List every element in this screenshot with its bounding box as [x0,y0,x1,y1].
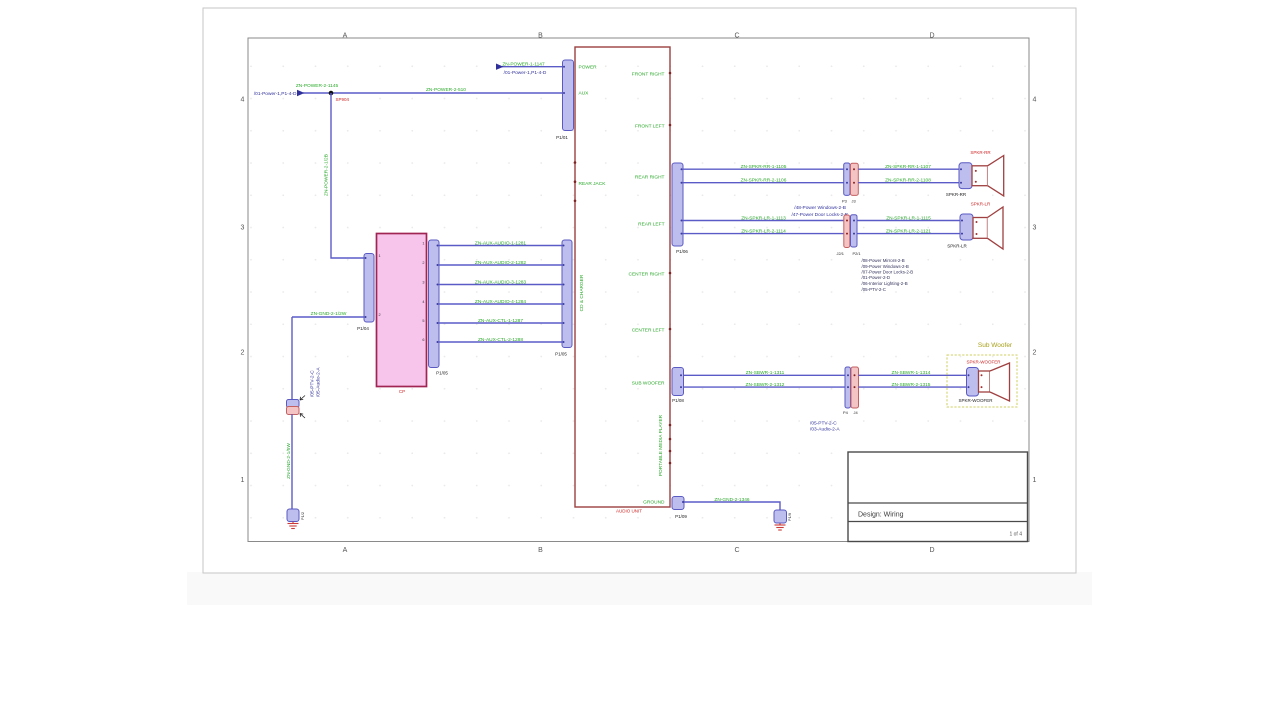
inline pair arrow bottom M [300,414,305,419]
svg-text:3: 3 [1033,225,1037,232]
connector P1/06 [672,163,683,246]
wire ZN-AUX-AUDIO-4 [439,303,562,305]
sub woofer dashed enclosure [947,355,1017,407]
svg-text:C: C [734,33,739,40]
svg-text:ZN-SPKR-RR-2-1106: ZN-SPKR-RR-2-1106 [741,178,787,184]
svg-text:/06-Interior Lighting-2-B: /06-Interior Lighting-2-B [862,281,908,286]
svg-text:ZN-SBWR-1-1314: ZN-SBWR-1-1314 [892,370,931,376]
connector SPKR-RR plug [959,163,972,189]
grid dots [249,39,1028,541]
svg-text:P3: P3 [842,199,847,204]
svg-text:P1/08: P1/08 [672,398,684,403]
svg-text:/05-PTV-2-C: /05-PTV-2-C [310,370,316,397]
svg-text:ZN-SPKR-RR-2-1108: ZN-SPKR-RR-2-1108 [885,178,931,184]
svg-text:P1/06: P1/06 [676,249,688,254]
mid connector P4 blue [845,367,851,408]
connector P1/05 right [562,240,572,348]
svg-text:/05-Audio-2-A: /05-Audio-2-A [316,367,322,397]
connector P1/01 [563,60,574,131]
speaker SPKR-WOOFER symbol [979,363,1010,401]
svg-text:ZN-SPKR-LR-1-1113: ZN-SPKR-LR-1-1113 [741,215,786,221]
connector SPKR-WOOFER plug [967,368,979,397]
inline connector pair M1 blue half [287,400,300,408]
wire ZN-AUX-AUDIO-3 [439,284,562,286]
svg-text:/48-Power Windows-2-B: /48-Power Windows-2-B [794,205,846,211]
svg-text:CD & CHARGER: CD & CHARGER [579,274,585,311]
speaker SPKR-RR symbol [972,156,1004,196]
svg-text:ZN-AUX-AUDIO-3-1283: ZN-AUX-AUDIO-3-1283 [475,279,527,285]
svg-text:REAR RIGHT: REAR RIGHT [635,175,665,181]
svg-text:ZN-AUX-AUDIO-4-1284: ZN-AUX-AUDIO-4-1284 [475,299,527,305]
svg-text:P1/9: P1/9 [787,513,792,521]
svg-text:ZN-SPKR-LR-2-1121: ZN-SPKR-LR-2-1121 [886,228,931,234]
svg-text:SPKR-LR: SPKR-LR [947,244,967,249]
svg-text:P1/04: P1/04 [357,326,369,331]
svg-text:/08-Power Mirrors-2-B: /08-Power Mirrors-2-B [862,258,905,263]
svg-text:/07-Power Door Locks-2-B: /07-Power Door Locks-2-B [862,270,914,275]
svg-text:2: 2 [379,313,381,317]
hierarchical arrow ZN-POWER-1 [496,64,504,70]
svg-text:ZN-SPKR-RR-1-1105: ZN-SPKR-RR-1-1105 [741,164,787,170]
audio unit rear jack pin dots left edge [574,161,577,202]
title block [848,452,1028,542]
connector SPKR-LR plug [960,214,973,240]
wire net ZN-POWER-2 vertical to P1/04 [331,93,364,258]
wire net ZN-POWER-2 horizontal [303,92,563,94]
canvas background band below page [187,572,1092,605]
svg-text:B: B [538,547,543,554]
svg-text:PORTABLE MEDIA PLAYER: PORTABLE MEDIA PLAYER [658,414,664,476]
connector P1/09 ground right [672,497,684,510]
svg-text:P4: P4 [843,410,849,415]
svg-text:/03-Audio-2-A: /03-Audio-2-A [810,427,840,433]
svg-text:/05-PTV-2-C: /05-PTV-2-C [862,287,886,292]
svg-text:P2/1: P2/1 [853,251,861,256]
svg-text:A: A [343,547,348,554]
svg-text:B: B [538,33,543,40]
svg-text:FRONT RIGHT: FRONT RIGHT [632,72,665,78]
wire ZN-SBWR-2 right [859,386,967,388]
svg-text:P1/01: P1/01 [556,135,568,140]
svg-text:REAR JACK: REAR JACK [579,181,607,187]
svg-text:AUDIO UNIT: AUDIO UNIT [616,509,642,514]
wire ZN-SPKR-LR-1 left [683,220,844,222]
wire net ZN-GND-2 left horizontal [292,316,364,318]
speaker SPKR-LR symbol [973,207,1003,249]
svg-text:Design: Wiring: Design: Wiring [858,512,904,519]
svg-text:SP904: SP904 [336,97,350,102]
svg-text:4: 4 [1033,97,1037,104]
audio unit U1 body [575,47,670,507]
aux wire pin dots [437,245,565,344]
svg-text:2: 2 [422,261,424,265]
svg-text:ZN-AUX-AUDIO-2-1282: ZN-AUX-AUDIO-2-1282 [475,260,527,266]
svg-text:1: 1 [1033,477,1037,484]
svg-text:ZN-GND-2-1/2W: ZN-GND-2-1/2W [311,311,347,317]
CP pin numbers right [422,241,424,341]
hierarchical arrow /01-Power [297,90,305,96]
connector P1/02 ground left [287,509,299,522]
connector P1/04 [364,254,374,323]
svg-text:D: D [929,547,934,554]
svg-text:1: 1 [379,254,381,258]
mid connector J2 red [844,215,850,248]
svg-text:SUB WOOFER: SUB WOOFER [632,381,665,387]
svg-text:2: 2 [241,350,245,357]
svg-text:C: C [734,547,739,554]
mid connector P3 blue [844,163,850,195]
connector P1/10 ground bottom [774,510,787,523]
wire ZN-SPKR-RR-1 right [858,168,959,170]
svg-text:1 of 4: 1 of 4 [1009,532,1022,538]
svg-text:ZN-POWER-2-1/2B: ZN-POWER-2-1/2B [324,154,330,196]
svg-text:1: 1 [241,477,245,484]
svg-text:ZN-SBWR-2-1312: ZN-SBWR-2-1312 [746,382,785,388]
svg-text:/01-Power-2-D: /01-Power-2-D [862,275,891,280]
svg-text:P1/05: P1/05 [436,371,448,376]
svg-text:ZN-SPKR-LR-1-1115: ZN-SPKR-LR-1-1115 [886,215,931,221]
svg-text:/01-Power-1,P1-4-D: /01-Power-1,P1-4-D [504,70,547,76]
wire ZN-AUX-AUDIO-2 [439,264,562,266]
svg-text:POWER: POWER [579,64,598,70]
svg-text:J3: J3 [852,199,856,204]
svg-text:ZN-SPKR-LR-2-1114: ZN-SPKR-LR-2-1114 [741,228,786,234]
mid connector pin dots RR [846,168,855,184]
svg-text:ZN-AUX-AUDIO-1-1281: ZN-AUX-AUDIO-1-1281 [475,240,527,246]
ground symbol left [288,522,299,529]
wire ZN-AUX-AUDIO-1 [439,245,562,247]
svg-text:4: 4 [241,97,245,104]
svg-text:P1/2: P1/2 [300,512,305,520]
wire ZN-AUX-CTL-2 [439,341,562,343]
ground symbol right [775,523,786,530]
svg-text:/47-Power Door Locks-2-B: /47-Power Door Locks-2-B [791,212,848,218]
svg-text:ZN-POWER-2-1145: ZN-POWER-2-1145 [296,83,339,89]
wire ZN-SBWR-1 right [859,374,967,376]
drawing border frame [241,33,1037,555]
wire net ZN-GND-2 bottom [684,502,780,510]
inline connector pair M1 red half [287,407,300,415]
wire ZN-SPKR-RR-1 left [683,168,844,170]
svg-text:/09-Power Windows-2-B: /09-Power Windows-2-B [862,264,909,269]
mid connector P2 blue [851,215,858,247]
svg-text:ZN-SPKR-RR-1-1107: ZN-SPKR-RR-1-1107 [885,164,931,170]
sheet ref list below J2 [862,258,914,292]
svg-text:FRONT LEFT: FRONT LEFT [635,124,665,130]
wire ZN-SPKR-RR-2 right [858,182,959,184]
svg-text:CP: CP [399,389,405,394]
svg-text:GROUND: GROUND [643,500,665,506]
svg-text:ZN-GND-2-1/5W: ZN-GND-2-1/5W [286,443,292,479]
svg-text:ZN-POWER-2-510: ZN-POWER-2-510 [426,87,466,93]
wire net ZN-POWER-1 [496,66,563,68]
svg-text:/05-PTV-2-C: /05-PTV-2-C [810,421,837,427]
svg-text:5: 5 [422,319,424,323]
wire ZN-SBWR-2 left [684,386,846,388]
svg-text:SPKR-RR: SPKR-RR [946,192,967,197]
svg-text:J2/1: J2/1 [837,251,844,256]
svg-text:CENTER LEFT: CENTER LEFT [632,328,665,334]
connector P1/08 woofer left [672,368,684,396]
svg-text:SPKR-WOOFER: SPKR-WOOFER [958,398,993,403]
svg-text:6: 6 [422,338,424,342]
mid connector J3 red [850,163,858,195]
wire ZN-SPKR-LR-2 left [683,233,844,235]
svg-text:P1/05: P1/05 [555,352,567,357]
junction SP904 [329,91,334,96]
wire ZN-SPKR-LR-1 right [857,220,960,222]
wire net ZN-GND-2 vertical upper [291,317,293,400]
inline pair arrow top M [300,396,305,401]
wire ZN-AUX-CTL-1 [439,322,562,324]
mid connector pin dots WF [847,374,856,388]
svg-text:ZN-POWER-1-1147: ZN-POWER-1-1147 [502,61,545,67]
svg-text:ZN-SBWR-2-1315: ZN-SBWR-2-1315 [892,382,931,388]
svg-text:ZN-AUX-CTL-1-1287: ZN-AUX-CTL-1-1287 [478,318,523,324]
connector P1/05 left [429,240,440,368]
page sheet [203,8,1076,573]
svg-text:A: A [343,33,348,40]
svg-text:CENTER RIGHT: CENTER RIGHT [629,272,665,278]
svg-text:D: D [929,33,934,40]
svg-text:1: 1 [422,241,424,245]
svg-text:REAR LEFT: REAR LEFT [638,222,664,228]
svg-text:SPKR-LR: SPKR-LR [971,202,991,207]
svg-text:ZN-GND-2-1346: ZN-GND-2-1346 [714,497,750,503]
svg-text:/01-Power-1,P1-4-D: /01-Power-1,P1-4-D [254,91,297,97]
wire ZN-SPKR-RR-2 left [683,182,844,184]
wire ZN-SBWR-1 left [684,374,846,376]
svg-text:AUX: AUX [579,91,590,97]
svg-text:SPKR-RR: SPKR-RR [970,150,991,155]
svg-text:2: 2 [1033,350,1037,357]
wire net ZN-GND-2 vertical lower [291,414,293,510]
svg-text:Sub Woofer: Sub Woofer [978,342,1013,349]
audio unit unconnected pin dots right edge [669,72,672,465]
mid connector pin dots LR [846,220,855,235]
wire ZN-SPKR-LR-2 right [857,233,960,235]
svg-text:P1/09: P1/09 [675,514,687,519]
svg-text:ZN-SBWR-1-1311: ZN-SBWR-1-1311 [746,370,785,376]
svg-text:3: 3 [422,280,424,284]
svg-text:4: 4 [422,300,424,304]
svg-text:SPKR-WOOFER: SPKR-WOOFER [966,360,1001,365]
svg-text:ZN-AUX-CTL-2-1288: ZN-AUX-CTL-2-1288 [478,337,523,343]
svg-text:3: 3 [241,225,245,232]
mid connector J4 red [851,367,859,408]
component CP [377,234,427,387]
